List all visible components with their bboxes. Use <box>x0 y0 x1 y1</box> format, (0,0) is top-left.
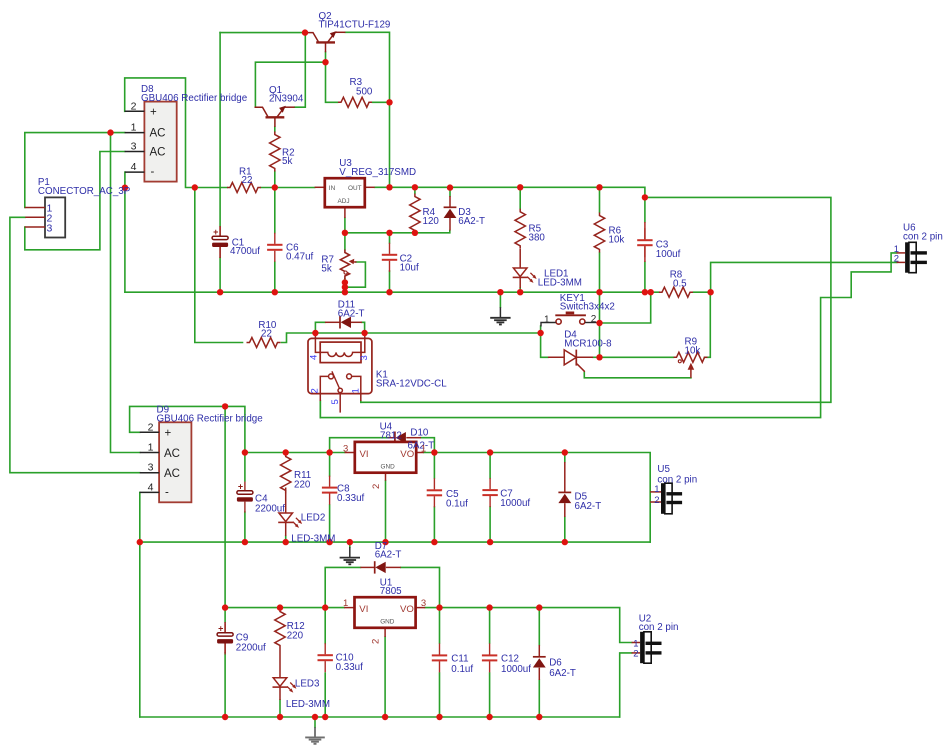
svg-text:3: 3 <box>131 141 137 153</box>
svg-text:1000uf: 1000uf <box>500 498 530 509</box>
svg-text:2: 2 <box>310 388 321 393</box>
svg-text:0.1uf: 0.1uf <box>451 664 473 675</box>
svg-text:-: - <box>165 487 169 499</box>
svg-text:220: 220 <box>287 631 304 642</box>
svg-text:1: 1 <box>343 598 348 609</box>
svg-text:5: 5 <box>330 399 341 404</box>
svg-text:1: 1 <box>421 443 426 454</box>
svg-text:C11: C11 <box>451 654 468 665</box>
svg-text:2: 2 <box>633 649 638 660</box>
svg-text:2: 2 <box>371 484 382 489</box>
svg-text:IN: IN <box>329 185 336 192</box>
svg-text:2: 2 <box>148 422 154 434</box>
svg-text:22: 22 <box>261 329 272 340</box>
svg-text:100uf: 100uf <box>656 249 681 260</box>
svg-text:4: 4 <box>148 482 154 494</box>
svg-text:6A2-T: 6A2-T <box>549 668 576 679</box>
svg-text:0.47uf: 0.47uf <box>286 252 314 263</box>
svg-text:GND: GND <box>381 463 396 470</box>
svg-text:1: 1 <box>131 122 137 134</box>
svg-text:AC: AC <box>150 128 166 140</box>
svg-text:3: 3 <box>148 462 154 474</box>
svg-text:2200uf: 2200uf <box>255 504 285 515</box>
svg-text:10k: 10k <box>685 346 701 357</box>
svg-text:2: 2 <box>654 495 659 506</box>
svg-text:4700uf: 4700uf <box>230 246 260 257</box>
svg-text:6A2-T: 6A2-T <box>458 216 485 227</box>
svg-text:AC: AC <box>164 468 180 480</box>
svg-text:U5: U5 <box>657 464 670 475</box>
svg-text:6A2-T: 6A2-T <box>575 501 602 512</box>
svg-text:1: 1 <box>351 388 362 393</box>
svg-text:1: 1 <box>654 484 659 495</box>
svg-text:1: 1 <box>148 442 154 454</box>
svg-text:con 2 pin: con 2 pin <box>657 475 697 486</box>
svg-text:2: 2 <box>371 639 382 644</box>
svg-text:-: - <box>151 166 155 178</box>
svg-text:2: 2 <box>894 254 899 265</box>
svg-text:+: + <box>165 428 172 440</box>
svg-text:0.5: 0.5 <box>673 279 687 290</box>
svg-text:2200uf: 2200uf <box>236 643 266 654</box>
svg-text:con 2 pin: con 2 pin <box>903 232 943 243</box>
svg-text:10k: 10k <box>609 235 625 246</box>
svg-text:7812: 7812 <box>380 431 402 442</box>
svg-text:SRA-12VDC-CL: SRA-12VDC-CL <box>376 379 447 390</box>
svg-text:C12: C12 <box>501 654 519 665</box>
svg-text:AC: AC <box>164 448 180 460</box>
svg-text:3: 3 <box>343 443 348 454</box>
svg-text:CONECTOR_AC_3P: CONECTOR_AC_3P <box>38 186 131 197</box>
svg-text:V_REG_317SMD: V_REG_317SMD <box>339 167 416 178</box>
svg-text:3: 3 <box>47 223 53 235</box>
svg-text:VO: VO <box>400 449 414 460</box>
svg-text:LED3: LED3 <box>295 679 320 690</box>
svg-text:1000uf: 1000uf <box>501 664 531 675</box>
svg-text:D10: D10 <box>410 428 429 439</box>
svg-text:1: 1 <box>544 315 550 326</box>
svg-text:Switch3x4x2: Switch3x4x2 <box>560 302 615 313</box>
svg-text:TIP41CTU-F129: TIP41CTU-F129 <box>319 20 391 31</box>
svg-text:AC: AC <box>150 147 166 159</box>
svg-text:3: 3 <box>421 598 426 609</box>
svg-text:D6: D6 <box>549 658 562 669</box>
svg-text:GBU406 Rectifier bridge: GBU406 Rectifier bridge <box>141 93 248 104</box>
svg-text:con 2 pin: con 2 pin <box>639 622 679 633</box>
svg-text:MCR100-8: MCR100-8 <box>564 339 612 350</box>
svg-text:VI: VI <box>360 449 369 460</box>
svg-text:2N3904: 2N3904 <box>269 94 304 105</box>
svg-text:4: 4 <box>131 161 137 173</box>
svg-text:LED2: LED2 <box>301 513 326 524</box>
svg-text:10uf: 10uf <box>400 263 419 274</box>
svg-text:120: 120 <box>423 216 440 227</box>
svg-text:6A2-T: 6A2-T <box>375 550 402 561</box>
svg-text:5k: 5k <box>321 264 331 275</box>
svg-text:4: 4 <box>309 355 320 360</box>
svg-text:6A2-T: 6A2-T <box>338 309 365 320</box>
svg-text:OUT: OUT <box>348 185 362 192</box>
svg-text:VI: VI <box>359 604 368 615</box>
svg-text:GBU406 Rectifier bridge: GBU406 Rectifier bridge <box>157 414 264 425</box>
svg-text:3: 3 <box>359 355 370 360</box>
svg-text:500: 500 <box>356 87 373 98</box>
svg-text:LED-3MM: LED-3MM <box>291 534 335 545</box>
svg-text:22: 22 <box>242 175 253 186</box>
svg-text:0.33uf: 0.33uf <box>337 493 365 504</box>
svg-text:LED-3MM: LED-3MM <box>286 699 330 710</box>
svg-text:5k: 5k <box>282 156 292 167</box>
svg-text:2: 2 <box>591 314 597 325</box>
svg-text:0.1uf: 0.1uf <box>446 499 468 510</box>
svg-text:0.33uf: 0.33uf <box>336 662 364 673</box>
svg-text:220: 220 <box>294 480 311 491</box>
svg-text:VO: VO <box>400 604 414 615</box>
svg-text:ADJ: ADJ <box>338 198 350 205</box>
svg-text:380: 380 <box>529 233 546 244</box>
svg-text:LED-3MM: LED-3MM <box>538 278 582 289</box>
svg-text:+: + <box>150 107 157 119</box>
svg-text:2: 2 <box>131 101 137 113</box>
svg-text:GND: GND <box>380 619 395 626</box>
svg-text:7805: 7805 <box>380 586 402 597</box>
